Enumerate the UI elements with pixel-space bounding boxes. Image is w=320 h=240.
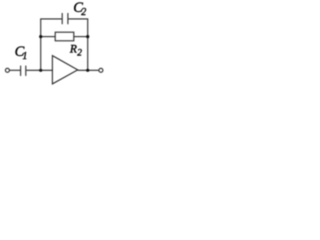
- wire top right segment: [68, 18, 88, 20]
- node R2 right junction: [86, 35, 89, 38]
- wire R2 right lead: [74, 36, 88, 38]
- svg-text:R: R: [69, 44, 77, 56]
- wire output lead: [78, 69, 99, 71]
- node output junction: [86, 69, 89, 72]
- capacitor C2: [62, 0, 86, 24]
- wire from C1 to op-amp input: [26, 69, 53, 71]
- output terminal: [99, 68, 103, 72]
- svg-text:1: 1: [22, 51, 27, 62]
- node R2 left junction: [39, 35, 42, 38]
- svg-text:2: 2: [77, 49, 82, 59]
- capacitor C1: [15, 44, 28, 76]
- wire left rail: [40, 19, 42, 70]
- resistor R2: [55, 32, 82, 59]
- op-amp U1: [52, 56, 77, 84]
- wire R2 left lead: [41, 36, 56, 38]
- node input junction: [39, 69, 42, 72]
- wire right rail: [87, 19, 89, 70]
- wire top left segment: [40, 18, 62, 20]
- svg-text:2: 2: [81, 7, 86, 18]
- wire input lead: [9, 69, 20, 71]
- input terminal: [5, 68, 9, 72]
